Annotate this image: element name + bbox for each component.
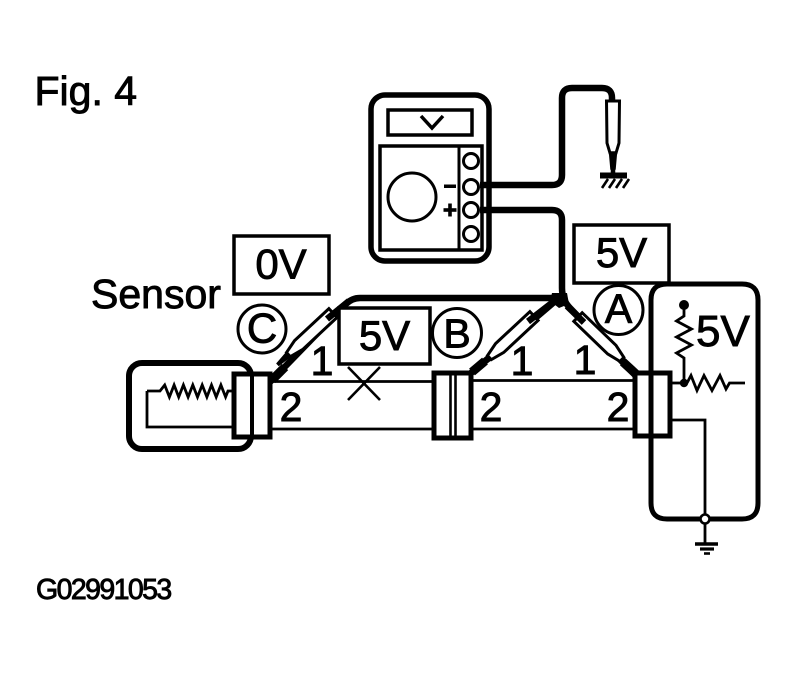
svg-text:5V: 5V (596, 229, 647, 276)
plus polarity mark (444, 204, 457, 217)
sensor body (129, 363, 251, 449)
test probe at point B (475, 312, 538, 372)
svg-text:1: 1 (311, 338, 334, 384)
voltmeter U1 body (371, 95, 489, 261)
svg-text:2: 2 (607, 384, 630, 430)
svg-text:5V: 5V (359, 312, 410, 359)
connector C (234, 374, 270, 437)
connector A (635, 373, 670, 436)
test probe at point A (574, 313, 636, 374)
connector C divider (250, 374, 254, 437)
voltmeter panel (380, 146, 482, 250)
wire: branch from junction to probe B (471, 297, 560, 373)
voltmeter display (388, 110, 472, 135)
reading box 0V at C (234, 236, 329, 294)
break mark X on wire 1 (348, 367, 380, 400)
voltmeter terminal 4 (464, 227, 479, 242)
terminal circle at ECU case (701, 515, 710, 524)
svg-text:A: A (605, 286, 633, 332)
node dot at resistor junction (680, 379, 688, 387)
probe tip contact at B (472, 361, 485, 372)
svg-text:B: B (443, 311, 470, 357)
node B marker (433, 309, 482, 358)
voltmeter terminal 1 (464, 154, 479, 169)
svg-text:0V: 0V (255, 241, 306, 288)
svg-text:5V: 5V (696, 307, 750, 356)
wire: branch from junction over to probe C (270, 298, 561, 382)
svg-text:C: C (247, 305, 277, 352)
minus polarity mark (444, 185, 456, 189)
ECU body (651, 284, 758, 519)
voltmeter panel divider (458, 146, 461, 250)
wire 1 (top) C to B (272, 380, 434, 383)
probe tip contact at C (272, 367, 285, 380)
chassis ground symbol (695, 544, 718, 554)
voltmeter display V mark (421, 116, 443, 128)
resistor inside sensor (147, 385, 234, 427)
pull-up resistor (vertical) in ECU (677, 308, 692, 380)
test probe at point C (274, 309, 337, 369)
svg-text:2: 2 (280, 384, 303, 430)
wire 2 (bottom) B to A (471, 428, 635, 431)
svg-text:Sensor: Sensor (91, 271, 221, 317)
wire pin2 to ground inside ECU (670, 420, 705, 515)
voltmeter terminal 3 (plus) (464, 203, 479, 218)
reading box 5V at A (574, 225, 669, 283)
reading box 5V at B (339, 308, 430, 364)
wire: minus lead from terminal to probe (480, 88, 612, 185)
connector B (434, 373, 471, 438)
svg-text:1: 1 (511, 338, 534, 384)
wire pin1 into ECU (670, 382, 682, 385)
wire: plus lead down to junction and on to probe A (480, 210, 637, 377)
resistor (horizontal) in ECU (687, 376, 745, 391)
test probe P- (minus lead) (607, 101, 620, 174)
voltmeter terminal 2 (minus) (464, 180, 479, 195)
wire overlap at probe B top (528, 299, 557, 322)
wire overlap at probe C top (327, 301, 349, 319)
ECU left edge through connector A (649, 340, 654, 470)
node A marker (594, 286, 643, 335)
wire to chassis ground (704, 524, 707, 544)
svg-text:G02991053: G02991053 (36, 574, 171, 606)
5V supply node dot (679, 300, 689, 310)
wire 2 (bottom) C to B (272, 428, 434, 431)
node C marker (238, 305, 286, 353)
svg-text:1: 1 (574, 337, 597, 383)
junction node of probe leads (550, 293, 569, 308)
ground symbol at minus probe (600, 173, 629, 189)
voltmeter dial (388, 173, 436, 221)
svg-text:Fig. 4: Fig. 4 (35, 68, 138, 114)
connector B divider (451, 373, 456, 438)
wire 1 (top) B to A (471, 379, 635, 382)
svg-text:2: 2 (480, 384, 503, 430)
probe tip contact at A (623, 362, 636, 374)
wire overlap at probe A top (567, 306, 584, 323)
